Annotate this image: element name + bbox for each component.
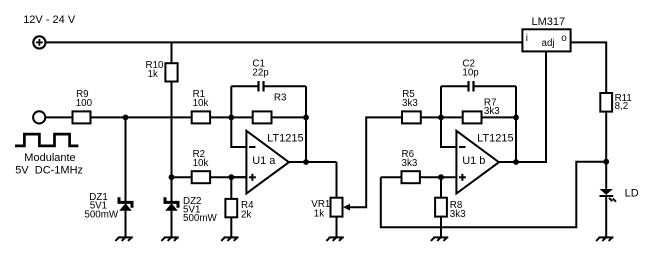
node R6/R8 junction [438,174,444,180]
node inverting input junction [228,115,234,121]
svg-text:22p: 22p [252,68,269,79]
node R2/R4 junction [228,174,234,180]
node U1a output junction [303,159,309,165]
resistor R3 [253,93,287,124]
svg-text:R3: R3 [274,93,287,104]
wire R1 to R3 [210,116,253,118]
zener DZ2 [165,196,218,224]
terminal + supply [33,36,45,48]
wire R8 to ground (crosses feedback rail) [440,217,442,238]
resistor R9 [73,89,93,123]
wire input to R9 [45,116,72,118]
wire U1b output to adj [499,51,546,162]
ground VR1 [326,237,343,241]
wire output down to VR1 [336,162,338,198]
net label Modulante 5V DC-1MHz [15,152,83,176]
wire feedback sense from LD node [381,162,606,228]
wire inverting input U1a [231,117,246,147]
wire R2 to U1a plus [210,176,246,178]
resistor R6 [381,149,420,183]
svg-text:3k3: 3k3 [402,98,418,109]
svg-text:10k: 10k [193,158,209,169]
svg-text:5V DC-1MHz: 5V DC-1MHz [15,164,83,176]
svg-text:adj: adj [542,38,555,49]
zener DZ1 [84,192,132,220]
svg-text:LT1215: LT1215 [267,133,304,145]
svg-text:3k3: 3k3 [484,106,500,117]
node inverting input junction U1b [438,115,444,121]
svg-text:8,2: 8,2 [615,101,629,112]
wire top rail [46,41,523,43]
node U1b output junction [513,159,519,165]
svg-text:10p: 10p [462,68,479,79]
wire DZ1 branch [125,117,127,201]
wire DZ1 to ground [125,211,127,238]
svg-text:i: i [526,33,528,44]
square wave symbol [15,134,78,146]
op-amp U1a [246,131,303,194]
node DZ1 tap junction [123,115,129,121]
node R2 tap junction [169,174,175,180]
svg-text:U1 a: U1 a [252,155,276,167]
wire VR1 to ground [336,217,338,238]
svg-text:LD: LD [625,188,639,200]
capacitor C2 [441,58,516,117]
input terminal [33,111,45,123]
potentiometer VR1 [311,198,350,220]
wire LD to ground [605,196,607,237]
ground R4 [221,237,238,241]
svg-text:LM317: LM317 [532,16,566,28]
node LD anode junction [603,159,609,165]
wire R6 to U1b plus [420,176,457,178]
wire DZ2 to ground [171,211,173,238]
ground DZ2 [161,237,178,241]
svg-text:500mW: 500mW [183,213,218,224]
svg-text:100: 100 [76,98,93,109]
wire LM317 output to R11 [571,42,607,93]
node R7/C2 right junction [513,115,519,121]
op-amp U1b [456,131,513,194]
wire noninverting input U1a [231,176,246,178]
wire inverting input U1b [441,117,456,147]
wire R9 to R1 [91,116,192,118]
regulator LM317 [522,16,570,51]
wire VR1 wiper to R5 [349,117,402,207]
wire R11 to LD [605,112,607,189]
wire R3 to output node [272,116,307,118]
svg-text:3k3: 3k3 [402,158,418,169]
wire U1a output [289,161,337,163]
resistor R8 [435,177,466,220]
wire R5 to R7 [421,116,463,118]
svg-text:12V - 24 V: 12V - 24 V [23,14,76,26]
svg-text:1k: 1k [148,69,158,80]
node R3/C1 right junction [303,115,309,121]
capacitor C1 [231,58,306,117]
resistor R4 [225,177,254,220]
svg-text:1k: 1k [314,208,324,219]
wire feedback down to output [305,117,307,162]
svg-text:Modulante: Modulante [24,152,75,164]
laser diode LD [600,188,639,202]
ground R8 [431,237,448,241]
ground LD [596,237,613,241]
svg-text:o: o [561,33,567,44]
resistor R7 [463,97,501,123]
wire feedback down to U1b output [515,117,517,162]
resistor R5 [402,89,421,123]
wire R7 to output node [482,116,517,118]
resistor R1 [192,89,210,123]
svg-text:3k3: 3k3 [450,209,466,220]
resistor R11 [600,93,632,112]
wire R4 to ground [230,217,232,237]
svg-text:U1 b: U1 b [462,155,485,167]
resistor R2 [172,149,211,183]
svg-text:LT1215: LT1215 [477,133,513,145]
svg-text:2k: 2k [241,209,251,220]
svg-text:500mW: 500mW [84,209,119,220]
svg-text:10k: 10k [193,98,209,109]
wire R10 to DZ2 (crosses signal row, no junction) [171,82,173,202]
resistor R10 [146,42,178,81]
ground DZ1 [115,237,132,241]
